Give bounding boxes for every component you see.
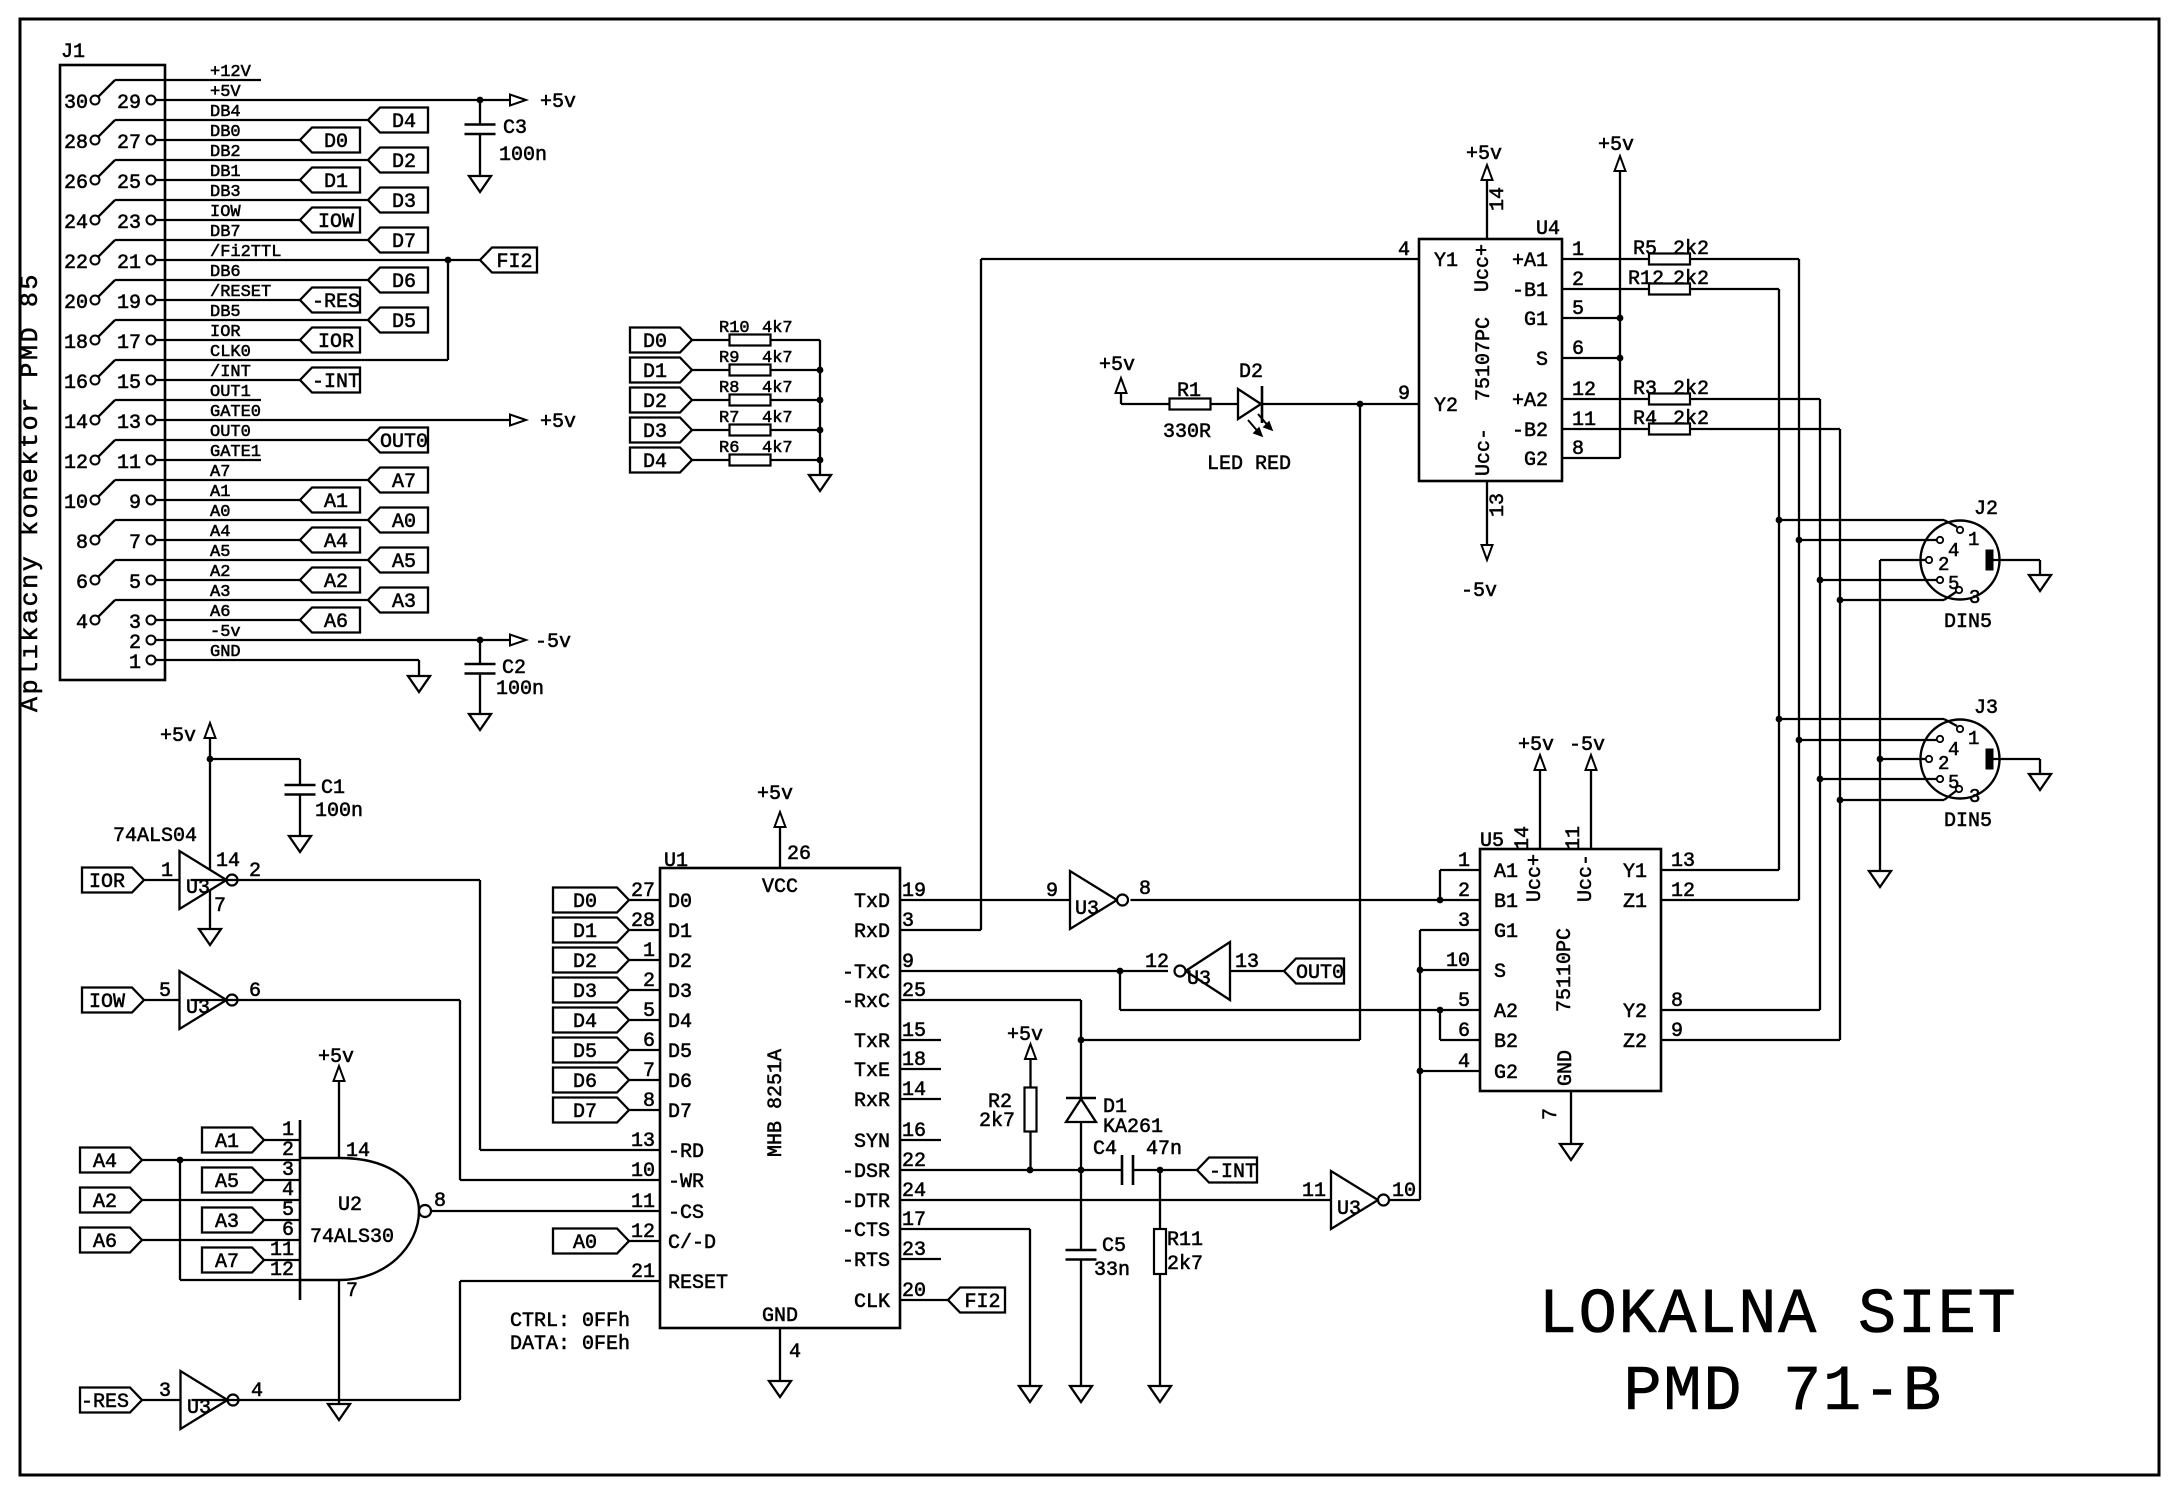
svg-text:D6: D6 <box>668 1071 692 1094</box>
tag OUT0 <box>1284 959 1344 984</box>
svg-text:100n: 100n <box>499 144 547 167</box>
svg-text:C5: C5 <box>1102 1235 1126 1258</box>
svg-text:+5v: +5v <box>1518 734 1554 757</box>
svg-text:-B2: -B2 <box>1512 420 1548 443</box>
tag A3 at U2 <box>202 1208 264 1233</box>
svg-text:-RD: -RD <box>668 1141 704 1164</box>
svg-text:R3: R3 <box>1633 378 1657 401</box>
wire -RES to RESET <box>192 1399 461 1401</box>
inverter U3 pins 5-6 <box>180 971 227 1029</box>
svg-text:D6: D6 <box>573 1071 597 1094</box>
wire J3 pin5 <box>1820 778 1937 780</box>
svg-text:19: 19 <box>117 292 141 315</box>
svg-text:R7: R7 <box>719 409 739 428</box>
svg-text:-TxC: -TxC <box>842 962 890 985</box>
svg-text:3: 3 <box>159 1380 171 1403</box>
J1 pin 17 net IOR <box>147 336 156 345</box>
U1 pin 5 D4 with tag <box>553 1008 629 1033</box>
inverter U3 pins 3-4 <box>181 1371 228 1429</box>
svg-text:DATA: 0FEh: DATA: 0FEh <box>510 1333 630 1356</box>
svg-text:D4: D4 <box>668 1011 692 1034</box>
svg-text:100n: 100n <box>496 678 544 701</box>
svg-text:A6: A6 <box>93 1231 117 1254</box>
svg-text:D2: D2 <box>573 951 597 974</box>
J2 pin 1 <box>1957 527 1963 533</box>
svg-text:U3: U3 <box>1187 968 1211 991</box>
J1 pin 18 net DB5 <box>91 336 100 345</box>
J2 pin 5 <box>1937 577 1943 583</box>
svg-text:+5v: +5v <box>1598 134 1634 157</box>
rpack bus wire <box>819 340 821 475</box>
svg-text:IOR: IOR <box>89 871 125 894</box>
svg-text:D7: D7 <box>668 1101 692 1124</box>
svg-text:IOW: IOW <box>318 211 354 234</box>
J2 shield tab <box>1986 550 1993 570</box>
svg-text:7: 7 <box>346 1280 358 1303</box>
svg-text:13: 13 <box>117 412 141 435</box>
svg-text:21: 21 <box>117 252 141 275</box>
svg-text:11: 11 <box>631 1191 655 1214</box>
svg-text:4: 4 <box>1458 1051 1470 1074</box>
svg-text:KA261: KA261 <box>1103 1116 1163 1139</box>
svg-text:-B1: -B1 <box>1512 280 1548 303</box>
J3 pin 2 <box>1926 756 1932 762</box>
tag D3 (to R7) <box>630 418 692 443</box>
svg-text:J1: J1 <box>61 41 85 64</box>
svg-text:-DSR: -DSR <box>842 1161 890 1184</box>
svg-text:C1: C1 <box>321 777 345 800</box>
svg-text:D5: D5 <box>573 1041 597 1064</box>
svg-text:26: 26 <box>64 172 88 195</box>
svg-text:A1: A1 <box>324 491 348 514</box>
svg-text:CTRL: 0FFh: CTRL: 0FFh <box>510 1310 630 1333</box>
svg-text:1: 1 <box>161 860 173 883</box>
tag IOW <box>82 988 144 1013</box>
svg-text:8: 8 <box>76 532 88 555</box>
svg-text:20: 20 <box>64 292 88 315</box>
wire J3 pin3 <box>1840 799 1944 801</box>
J1 pin 8 net A0 <box>91 536 100 545</box>
svg-text:2k7: 2k7 <box>979 1110 1015 1133</box>
svg-text:A4: A4 <box>324 531 348 554</box>
svg-text:D3: D3 <box>573 981 597 1004</box>
svg-text:4: 4 <box>1948 540 1959 562</box>
resistor R8 4k7 <box>730 395 771 406</box>
J1 pin 2 net -5v <box>147 636 156 645</box>
J1 pin 12 net OUT0 <box>91 456 100 465</box>
svg-text:100n: 100n <box>315 800 363 823</box>
svg-text:9: 9 <box>1398 383 1410 406</box>
svg-text:8: 8 <box>643 1090 655 1113</box>
svg-text:25: 25 <box>117 172 141 195</box>
svg-text:6: 6 <box>76 572 88 595</box>
svg-text:A0: A0 <box>573 1232 597 1255</box>
svg-text:33n: 33n <box>1094 1259 1130 1282</box>
J1 pin 11 net GATE1 <box>147 456 156 465</box>
tag A6 at U2 <box>80 1228 142 1253</box>
J1 pin 14 net OUT1 <box>91 416 100 425</box>
svg-text:8: 8 <box>1671 990 1683 1013</box>
svg-text:D3: D3 <box>392 191 416 214</box>
svg-text:A2: A2 <box>93 1191 117 1214</box>
svg-text:J2: J2 <box>1974 498 1998 521</box>
J1 pin 21 net /Fi2TTL <box>147 256 156 265</box>
svg-text:DIN5: DIN5 <box>1944 810 1992 833</box>
svg-text:C4: C4 <box>1093 1138 1117 1161</box>
U1 pin 2 D3 with tag <box>553 978 629 1003</box>
svg-text:RxR: RxR <box>854 1090 890 1113</box>
svg-text:FI2: FI2 <box>496 251 532 274</box>
tag A7 at U2 <box>202 1248 264 1273</box>
U5 S stub <box>1420 969 1480 971</box>
svg-text:D2: D2 <box>1239 361 1263 384</box>
svg-text:12: 12 <box>64 452 88 475</box>
J1 pin 20 net DB6 <box>91 296 100 305</box>
svg-text:-INT: -INT <box>1209 1161 1257 1184</box>
J1 pin 25 net DB1 <box>147 176 156 185</box>
svg-text:4: 4 <box>1398 239 1410 262</box>
svg-text:C3: C3 <box>503 117 527 140</box>
svg-text:U5: U5 <box>1480 830 1504 853</box>
wire U1 TxD to inverter <box>900 899 1070 901</box>
svg-text:RESET: RESET <box>668 1272 728 1295</box>
wire U1 -RxC <box>900 999 1081 1001</box>
resistor R5 2k2 <box>1562 258 1649 260</box>
svg-text:11: 11 <box>1302 1180 1326 1203</box>
svg-text:Ucc+: Ucc+ <box>1524 854 1547 902</box>
svg-text:14: 14 <box>1512 826 1535 850</box>
U5 B2 elbow <box>1439 1010 1441 1040</box>
capacitor C5 33n <box>1066 1249 1097 1252</box>
svg-text:U1: U1 <box>664 850 688 873</box>
U4 G1 stub <box>1562 317 1620 319</box>
wire -TxC feedback to U5 A2 <box>1119 971 1121 1010</box>
U1 pin 27 D0 with tag <box>553 888 629 913</box>
svg-text:A1: A1 <box>215 1131 239 1154</box>
capacitor C3 <box>479 100 481 125</box>
svg-text:5: 5 <box>643 1000 655 1023</box>
svg-text:21: 21 <box>631 1261 655 1284</box>
svg-text:A5: A5 <box>215 1171 239 1194</box>
U3 pin14 +5v rail <box>209 739 211 870</box>
svg-text:D4: D4 <box>392 111 416 134</box>
svg-text:R10: R10 <box>719 319 750 338</box>
svg-text:8: 8 <box>1139 878 1151 901</box>
svg-text:5: 5 <box>159 980 171 1003</box>
U5 pin 7 GND <box>1570 1091 1572 1144</box>
svg-text:14: 14 <box>216 850 240 873</box>
connector J1 box <box>60 65 165 680</box>
svg-text:A6: A6 <box>324 611 348 634</box>
svg-text:26: 26 <box>787 843 811 866</box>
svg-text:Z2: Z2 <box>1623 1031 1647 1054</box>
U1 pin 28 D1 with tag <box>553 918 629 943</box>
svg-text:75107PC: 75107PC <box>1473 317 1496 401</box>
svg-text:+5v: +5v <box>540 411 576 434</box>
svg-text:-CS: -CS <box>668 1202 704 1225</box>
svg-text:9: 9 <box>1671 1020 1683 1043</box>
svg-text:22: 22 <box>64 252 88 275</box>
resistor R7 4k7 <box>730 425 771 436</box>
svg-text:3: 3 <box>1458 910 1470 933</box>
wire J2 pin5 <box>1820 579 1937 581</box>
J1 pin 9 net A1 <box>147 496 156 505</box>
svg-text:D7: D7 <box>573 1101 597 1124</box>
svg-text:U3: U3 <box>1337 1198 1361 1221</box>
U2 pin14 +5v <box>338 1082 340 1158</box>
svg-text:R8: R8 <box>719 379 739 398</box>
svg-text:5: 5 <box>129 572 141 595</box>
inverter U3 pins 11-10 <box>1331 1171 1378 1229</box>
wire J3 pin2 <box>1880 758 1926 760</box>
J3 pin 4 <box>1937 736 1943 742</box>
svg-text:10: 10 <box>631 1160 655 1183</box>
U5 pin 14 +5v <box>1539 771 1541 849</box>
svg-text:2k2: 2k2 <box>1673 408 1709 431</box>
svg-text:-RxC: -RxC <box>842 991 890 1014</box>
svg-text:IOR: IOR <box>318 331 354 354</box>
svg-text:D0: D0 <box>324 131 348 154</box>
U4 S stub <box>1562 357 1620 359</box>
wire J3 pin1 <box>1779 718 1944 720</box>
wire J2 pin2 <box>1880 559 1926 561</box>
LED arrows <box>1248 420 1260 434</box>
svg-text:Ucc-: Ucc- <box>1473 428 1496 476</box>
capacitor C1 <box>210 758 300 760</box>
capacitor C4 47n <box>1121 1155 1124 1185</box>
svg-text:+5v: +5v <box>318 1046 354 1069</box>
svg-text:4k7: 4k7 <box>762 409 793 428</box>
svg-text:A5: A5 <box>392 551 416 574</box>
svg-text:2k2: 2k2 <box>1673 378 1709 401</box>
capacitor C2 <box>479 640 481 664</box>
svg-text:+A1: +A1 <box>1512 250 1548 273</box>
tag FI2 at CLK <box>948 1288 1005 1313</box>
svg-text:-CTS: -CTS <box>842 1220 890 1243</box>
U4 pin 13 -5v <box>1486 481 1488 545</box>
svg-text:+5v: +5v <box>1007 1024 1043 1047</box>
J1 pin 27 net DB0 <box>147 136 156 145</box>
svg-text:D4: D4 <box>643 451 667 474</box>
svg-text:SYN: SYN <box>854 1131 890 1154</box>
svg-text:75110PC: 75110PC <box>1554 928 1577 1012</box>
svg-text:A7: A7 <box>392 471 416 494</box>
svg-text:R6: R6 <box>719 439 739 458</box>
resistor R6 4k7 <box>730 455 771 466</box>
svg-text:2k7: 2k7 <box>1167 1253 1203 1276</box>
svg-text:4k7: 4k7 <box>762 349 793 368</box>
svg-text:VCC: VCC <box>762 876 798 899</box>
svg-text:7: 7 <box>1540 1108 1563 1120</box>
svg-text:7: 7 <box>129 532 141 555</box>
U4 pin 14 +5v <box>1486 181 1488 239</box>
svg-text:24: 24 <box>64 212 88 235</box>
svg-text:8: 8 <box>434 1190 446 1213</box>
svg-text:11: 11 <box>117 452 141 475</box>
J1 pin 29 net +5V <box>147 96 156 105</box>
svg-text:4k7: 4k7 <box>762 319 793 338</box>
wire J2 pin4 <box>1799 539 1937 541</box>
resistor R10 4k7 <box>730 335 771 346</box>
svg-text:DIN5: DIN5 <box>1944 611 1992 634</box>
svg-text:TxE: TxE <box>854 1060 890 1083</box>
svg-text:Y2: Y2 <box>1434 395 1458 418</box>
svg-text:GND: GND <box>1555 1050 1578 1086</box>
svg-text:12: 12 <box>631 1221 655 1244</box>
svg-text:7: 7 <box>643 1060 655 1083</box>
J3 shield tab <box>1986 749 1993 769</box>
svg-text:TxR: TxR <box>854 1031 890 1054</box>
svg-text:A3: A3 <box>215 1211 239 1234</box>
U1 pin 6 D5 with tag <box>553 1038 629 1063</box>
svg-text:A1: A1 <box>1494 861 1518 884</box>
svg-text:2: 2 <box>1458 880 1470 903</box>
J2 pin 4 <box>1937 537 1943 543</box>
svg-text:27: 27 <box>117 132 141 155</box>
svg-text:A2: A2 <box>1494 1001 1518 1024</box>
svg-text:R4: R4 <box>1633 408 1657 431</box>
svg-text:7: 7 <box>214 895 226 918</box>
J3 shield ground wire <box>1993 758 2040 760</box>
svg-text:+5v: +5v <box>1099 354 1135 377</box>
wire vertical Z2-net <box>1839 429 1841 1040</box>
svg-text:9: 9 <box>129 492 141 515</box>
tag D0 (to R10) <box>630 328 692 353</box>
wire IOW to -WR <box>191 999 461 1001</box>
diode D1 KA261 <box>1066 1097 1096 1100</box>
svg-text:330R: 330R <box>1163 421 1211 444</box>
wire U2 out to -CS <box>431 1210 660 1212</box>
svg-text:R11: R11 <box>1167 1229 1203 1252</box>
resistor R1 330R <box>1170 399 1211 410</box>
svg-text:Y2: Y2 <box>1623 1001 1647 1024</box>
U1 pin 26 VCC +5v <box>779 828 781 868</box>
svg-text:1: 1 <box>1458 850 1470 873</box>
svg-text:U2: U2 <box>338 1194 362 1217</box>
svg-text:18: 18 <box>64 332 88 355</box>
svg-text:GND: GND <box>762 1305 798 1328</box>
svg-text:17: 17 <box>117 332 141 355</box>
J1 pin 26 net DB2 <box>91 176 100 185</box>
tag IOR <box>82 868 144 893</box>
svg-text:Y1: Y1 <box>1623 861 1647 884</box>
svg-text:+5v: +5v <box>160 725 196 748</box>
inverter U3 pins 12-13 mirrored <box>1186 942 1231 1000</box>
wire D1 to C5 <box>1080 1170 1082 1250</box>
svg-text:12: 12 <box>270 1259 294 1282</box>
resistor R4 2k2 <box>1562 428 1649 430</box>
svg-text:TxD: TxD <box>854 891 890 914</box>
svg-text:D4: D4 <box>573 1011 597 1034</box>
svg-text:U4: U4 <box>1536 218 1560 241</box>
svg-text:D3: D3 <box>643 421 667 444</box>
svg-text:1: 1 <box>129 652 141 675</box>
U5 pin 11 -5v <box>1590 771 1592 849</box>
svg-text:Ucc+: Ucc+ <box>1472 244 1495 292</box>
J1 pin 10 net A7 <box>91 496 100 505</box>
tag D2 (to R8) <box>630 388 692 413</box>
resistor R3 2k2 <box>1562 398 1649 400</box>
svg-text:9: 9 <box>1046 880 1058 903</box>
svg-text:13: 13 <box>1671 850 1695 873</box>
wire J2 pin1 <box>1779 519 1944 521</box>
wire inverter 10 to U5 G1/S/G2 <box>1389 1199 1421 1201</box>
svg-text:D2: D2 <box>643 391 667 414</box>
U3 pin7 ground <box>209 890 211 929</box>
svg-text:D1: D1 <box>573 921 597 944</box>
wire inverter 8 to U5 B1 <box>1131 899 1481 901</box>
wire U1 -CTS to ground <box>900 1228 1030 1230</box>
svg-text:A7: A7 <box>215 1251 239 1274</box>
svg-text:Ucc-: Ucc- <box>1575 854 1598 902</box>
svg-text:27: 27 <box>631 880 655 903</box>
svg-text:D1: D1 <box>324 171 348 194</box>
svg-text:+A2: +A2 <box>1512 390 1548 413</box>
svg-text:30: 30 <box>64 92 88 115</box>
wire IOR to -RD <box>191 879 481 881</box>
J3 pin 3 <box>1956 786 1962 792</box>
J1 pin 23 net IOW <box>147 216 156 225</box>
svg-text:CLK: CLK <box>854 1291 890 1314</box>
J1 pin 5 net A2 <box>147 576 156 585</box>
inverter U3 pins 1-2 <box>180 851 227 909</box>
svg-text:16: 16 <box>64 372 88 395</box>
svg-text:4k7: 4k7 <box>762 439 793 458</box>
U2 input bus <box>299 1120 302 1300</box>
U2 pin7 ground <box>338 1280 340 1404</box>
tag A5 at U2 <box>202 1168 264 1193</box>
C5 ground <box>1070 1386 1092 1402</box>
svg-text:U3: U3 <box>1075 898 1099 921</box>
svg-text:D0: D0 <box>573 891 597 914</box>
J1 pin 7 net A4 <box>147 536 156 545</box>
U4 G2 stub <box>1562 457 1620 459</box>
wire vertical Y2-net <box>1819 399 1821 1010</box>
wire C4 to -INT tag <box>1133 1169 1197 1171</box>
J2 pin 2 <box>1926 557 1932 563</box>
wire U1 RxD to U4 Y1 <box>900 929 981 931</box>
tag -RES <box>80 1388 142 1413</box>
svg-text:29: 29 <box>117 92 141 115</box>
NAND gate U2 74ALS30 body <box>300 1158 419 1280</box>
J1 pin 4 net A3 <box>91 616 100 625</box>
svg-text:4: 4 <box>789 1341 801 1364</box>
svg-text:23: 23 <box>117 212 141 235</box>
A4 junction chain <box>177 1157 184 1164</box>
svg-text:10: 10 <box>1446 950 1470 973</box>
U1 pin 12 C/-D with tag A0 <box>553 1229 629 1254</box>
svg-text:B2: B2 <box>1494 1031 1518 1054</box>
resistor R12 2k2 <box>1562 288 1649 290</box>
svg-text:10: 10 <box>64 492 88 515</box>
J1 pin 24 net DB3 <box>91 216 100 225</box>
svg-text:C2: C2 <box>502 657 526 680</box>
wire J3 pin4 <box>1799 739 1937 741</box>
tag D1 (to R9) <box>630 358 692 383</box>
svg-text:J3: J3 <box>1974 697 1998 720</box>
svg-text:R1: R1 <box>1177 380 1201 403</box>
svg-text:13: 13 <box>631 1130 655 1153</box>
svg-text:5: 5 <box>1458 990 1470 1013</box>
svg-text:Aplikacny konektor PMD 85: Aplikacny konektor PMD 85 <box>16 272 45 712</box>
svg-text:+5v: +5v <box>1466 143 1502 166</box>
svg-text:D1: D1 <box>668 921 692 944</box>
svg-text:-WR: -WR <box>668 1171 704 1194</box>
svg-text:28: 28 <box>631 910 655 933</box>
svg-text:14: 14 <box>64 412 88 435</box>
svg-text:D2: D2 <box>668 951 692 974</box>
svg-text:-RES: -RES <box>312 291 360 314</box>
